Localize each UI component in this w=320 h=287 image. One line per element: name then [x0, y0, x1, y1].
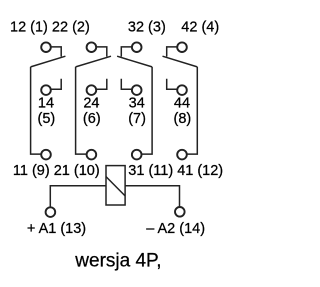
pole 3 movable contact arm [117, 56, 152, 67]
svg-text:31 (11) 41 (12): 31 (11) 41 (12) [128, 163, 223, 179]
svg-text:– A2 (14): – A2 (14) [146, 221, 205, 237]
svg-text:12 (1) 22 (2): 12 (1) 22 (2) [10, 19, 90, 35]
pole 4 movable contact arm [163, 56, 198, 67]
pole 1 movable contact arm [31, 56, 66, 67]
contact terminal 22 [87, 42, 107, 56]
svg-text:44: 44 [174, 96, 190, 112]
contact terminal 42 [167, 42, 187, 56]
relay coil [106, 166, 125, 205]
contact terminal 44 [167, 79, 187, 95]
svg-text:32 (3): 32 (3) [128, 19, 166, 35]
coil terminal A1 [46, 207, 56, 217]
coil terminal A2 [175, 207, 185, 217]
contact terminal 32 [121, 42, 141, 56]
contact terminal 12 [41, 42, 61, 56]
svg-text:(8): (8) [174, 111, 192, 127]
svg-text:+ A1 (13): + A1 (13) [27, 221, 86, 237]
pole 3 common wire [141, 67, 152, 154]
pole 2 common wire [76, 67, 87, 154]
svg-text:11 (9) 21 (10): 11 (9) 21 (10) [13, 163, 100, 179]
pole 1 common wire [31, 67, 42, 154]
contact terminal 21 [87, 150, 97, 160]
svg-text:wersja 4P,: wersja 4P, [74, 250, 161, 271]
svg-text:(7): (7) [128, 111, 146, 127]
contact terminal 24 [87, 79, 107, 95]
contact terminal 31 [132, 150, 142, 160]
svg-text:34: 34 [129, 96, 145, 112]
contact terminal 34 [121, 79, 141, 95]
contact terminal 41 [177, 150, 187, 160]
contact terminal 14 [41, 79, 61, 95]
pole 4 common wire [187, 67, 198, 154]
svg-text:(5): (5) [38, 111, 56, 127]
contact terminal 11 [41, 150, 51, 160]
coil wire A2 [125, 186, 179, 207]
svg-text:24: 24 [83, 96, 99, 112]
svg-text:14: 14 [38, 96, 54, 112]
coil wire A1 [50, 186, 106, 208]
svg-text:42 (4): 42 (4) [181, 19, 219, 35]
pole 2 movable contact arm [76, 56, 111, 67]
svg-text:(6): (6) [83, 111, 101, 127]
